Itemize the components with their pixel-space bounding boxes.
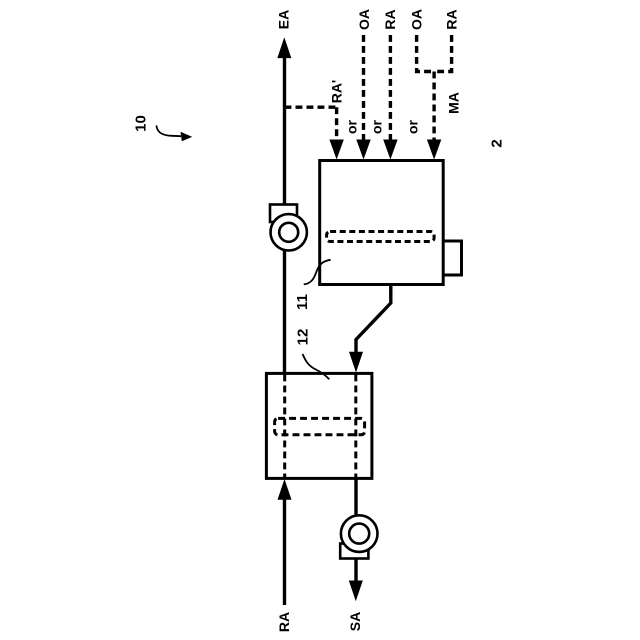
svg-text:11: 11: [294, 294, 311, 310]
svg-text:MA: MA: [446, 92, 462, 114]
svg-text:or: or: [344, 119, 360, 134]
svg-text:2: 2: [489, 139, 506, 147]
svg-text:RA: RA: [276, 612, 292, 632]
svg-text:RA: RA: [444, 9, 460, 29]
svg-text:OA: OA: [356, 9, 372, 30]
svg-text:or: or: [404, 119, 420, 134]
svg-text:12: 12: [295, 329, 312, 346]
svg-text:SA: SA: [347, 612, 363, 631]
svg-text:OA: OA: [409, 9, 425, 30]
svg-text:10: 10: [133, 115, 150, 132]
svg-text:RA': RA': [329, 80, 345, 104]
svg-text:RA: RA: [382, 9, 398, 29]
svg-text:EA: EA: [276, 10, 292, 29]
svg-text:or: or: [368, 119, 384, 134]
